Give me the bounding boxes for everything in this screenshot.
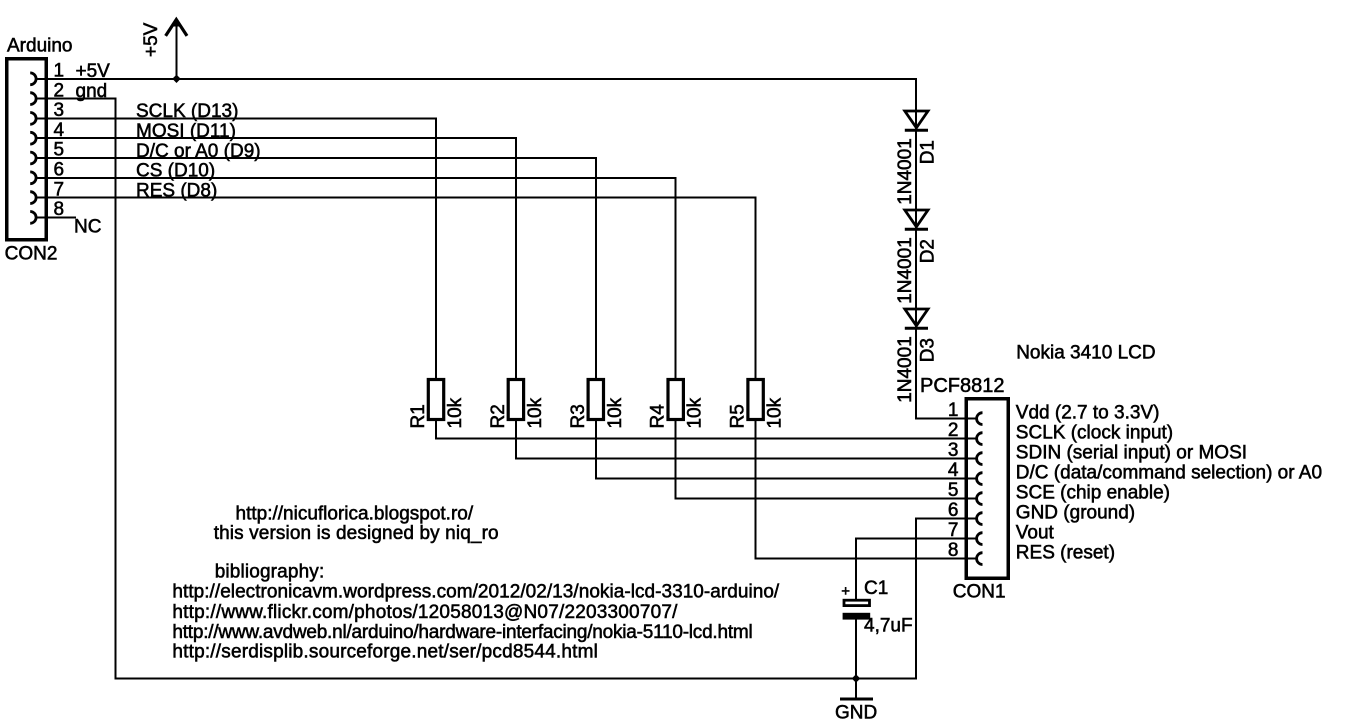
note text: http://www.flickr.com/photos/12058013@N0 — [172, 602, 678, 623]
svg-text:10k: 10k — [525, 397, 546, 428]
wire gnd net: CON2 pin2 down left side, bottom rail, up to CON1 pin6 — [36, 99, 977, 679]
label R4 (rotated) — [648, 404, 669, 429]
svg-text:5: 5 — [948, 480, 959, 501]
wire R4 bottom to CON1 pin 5 — [676, 420, 977, 499]
CON2 pin number 6 — [54, 160, 65, 181]
value 1N4001 of D2 (rotated) — [895, 237, 916, 304]
value 10k of R1 (rotated) — [445, 397, 466, 428]
svg-text:RES (D8): RES (D8) — [136, 180, 217, 201]
svg-text:CON2: CON2 — [5, 244, 58, 265]
svg-text:Arduino: Arduino — [7, 36, 73, 57]
svg-text:+5V: +5V — [141, 22, 162, 57]
label D1 (rotated) — [918, 140, 939, 164]
svg-text:http://nicuflorica.blogspot.ro: http://nicuflorica.blogspot.ro/ — [236, 503, 474, 524]
resistor R5 body — [748, 380, 763, 420]
svg-text:+: + — [841, 583, 850, 600]
svg-text:SCLK (clock input): SCLK (clock input) — [1016, 423, 1173, 444]
value 1N4001 of D1 (rotated) — [895, 138, 916, 205]
wire R2 bottom to CON1 pin 3 — [516, 420, 977, 459]
svg-text:+5V: +5V — [76, 61, 111, 82]
svg-text:1: 1 — [948, 400, 959, 421]
svg-text:6: 6 — [948, 500, 959, 521]
connector CON2 (Arduino header) — [7, 59, 47, 240]
CON2 pin 1 socket — [30, 73, 36, 85]
label PCF8812 — [920, 375, 1005, 397]
note text: http://www.avdweb.nl/arduino/hardware-in — [172, 622, 752, 643]
svg-text:10k: 10k — [605, 397, 626, 428]
svg-text:10k: 10k — [765, 397, 786, 428]
svg-text:Vout: Vout — [1016, 523, 1055, 544]
svg-text:this version is designed by ni: this version is designed by niq_ro — [214, 523, 499, 544]
wire C1 bottom to ground rail — [855, 620, 857, 679]
resistor R2 body — [508, 380, 523, 420]
svg-text:PCF8812: PCF8812 — [920, 375, 1005, 397]
diode D2 (1N4001) — [905, 210, 928, 229]
svg-text:bibliography:: bibliography: — [215, 562, 325, 583]
diode D3 (1N4001) — [905, 309, 928, 328]
svg-text:D2: D2 — [918, 239, 939, 263]
svg-text:R3: R3 — [568, 404, 589, 428]
value 10k of R4 (rotated) — [685, 397, 706, 428]
CON2 pin number 5 — [54, 140, 65, 161]
wire SCLK from CON2 pin 3 to R1 top — [36, 118, 436, 379]
label Arduino — [7, 36, 73, 57]
svg-text:C1: C1 — [864, 578, 888, 599]
CON1 pin 1 socket — [977, 413, 983, 425]
CON1 pin number 7 — [948, 520, 959, 541]
CON1 pin 7 socket — [977, 533, 983, 545]
wire R3 bottom to CON1 pin 4 — [596, 420, 977, 479]
CON1 pin number 5 — [948, 480, 959, 501]
svg-text:SCE (chip enable): SCE (chip enable) — [1016, 483, 1170, 504]
note text: this version is designed by niq_ro — [214, 523, 499, 544]
wire +5V net: CON2 pin1 to top rail to diode chain — [36, 79, 977, 419]
CON1 pin number 2 — [948, 420, 959, 441]
label MOSI (D11) — [136, 121, 236, 142]
connector CON1 (Nokia 3410 LCD PCF8812) — [966, 399, 1008, 579]
wire CS from CON2 pin 6 to R4 top — [36, 178, 676, 380]
CON2 pin 3 socket — [30, 113, 36, 125]
svg-text:GND (ground): GND (ground) — [1016, 503, 1135, 524]
svg-text:R5: R5 — [728, 404, 749, 428]
label D3 (rotated) — [918, 338, 939, 362]
svg-text:2: 2 — [948, 420, 959, 441]
svg-text:R2: R2 — [488, 404, 509, 428]
CON2 pin 8 socket — [30, 212, 36, 224]
svg-text:SCLK (D13): SCLK (D13) — [136, 101, 238, 122]
CON2 pin 2 socket — [30, 93, 36, 105]
label SCLK (clock input) — [1016, 423, 1173, 444]
label C1 — [864, 578, 888, 599]
svg-text:CON1: CON1 — [953, 582, 1006, 603]
CON1 pin 3 socket — [977, 453, 983, 465]
label +5V (rotated) — [141, 22, 162, 57]
CON1 pin 2 socket — [977, 433, 983, 445]
capacitor C1 polarized — [843, 600, 871, 619]
svg-text:http://www.flickr.com/photos/1: http://www.flickr.com/photos/12058013@N0… — [172, 602, 678, 623]
ground symbol GND — [840, 679, 873, 700]
CON2 pin number 8 — [54, 199, 65, 220]
svg-text:GND: GND — [835, 703, 877, 724]
svg-text:4: 4 — [948, 460, 959, 481]
label CS (D10) — [136, 161, 215, 182]
label R2 (rotated) — [488, 404, 509, 428]
junction at +5V arrow and rail — [172, 75, 180, 83]
note text: http://nicuflorica.blogspot.ro/ — [236, 503, 474, 524]
value 4,7uF — [864, 616, 913, 637]
CON1 pin 8 socket — [977, 553, 983, 565]
svg-text:RES (reset): RES (reset) — [1016, 543, 1115, 564]
resistor R3 body — [588, 380, 603, 420]
CON1 pin 6 socket — [977, 513, 983, 525]
wire D/C from CON2 pin 5 to R3 top — [36, 158, 596, 380]
svg-text:1N4001: 1N4001 — [895, 138, 916, 205]
label R1 (rotated) — [408, 404, 429, 428]
label RES (reset) — [1016, 543, 1115, 564]
CON2 pin 4 socket — [30, 132, 36, 144]
value 1N4001 of D3 (rotated) — [895, 336, 916, 403]
CON2 pin number 1 — [54, 61, 65, 82]
wire R5 bottom to CON1 pin 8 — [756, 420, 977, 559]
svg-text:3: 3 — [948, 440, 959, 461]
wire RES from CON2 pin 7 to R5 top — [36, 198, 756, 380]
svg-text:D/C (data/command selection) o: D/C (data/command selection) or A0 — [1016, 463, 1322, 484]
label SCLK (D13) — [136, 101, 238, 122]
label R3 (rotated) — [568, 404, 589, 428]
CON2 pin number 7 — [54, 179, 65, 200]
resistor R1 body — [428, 380, 443, 420]
label SCE (chip enable) — [1016, 483, 1170, 504]
wire R1 bottom to CON1 pin 2 — [436, 420, 977, 439]
label CON2 — [5, 244, 58, 265]
label Vout — [1016, 523, 1055, 544]
label D/C (data/command selection) or A0 — [1016, 463, 1322, 484]
svg-text:http://electronicavm.wordpress: http://electronicavm.wordpress.com/2012/… — [172, 582, 780, 603]
svg-text:Vdd (2.7 to 3.3V): Vdd (2.7 to 3.3V) — [1016, 403, 1160, 424]
svg-text:10k: 10k — [445, 397, 466, 428]
label NC — [74, 217, 101, 238]
note text: bibliography: — [215, 562, 325, 583]
junction at C1 / ground rail — [852, 674, 861, 683]
wire NC stub CON2 pin8 — [36, 216, 76, 218]
CON2 pin number 3 — [54, 100, 65, 121]
svg-text:4,7uF: 4,7uF — [864, 616, 913, 637]
CON1 pin 4 socket — [977, 473, 983, 485]
svg-text:SDIN (serial input) or MOSI: SDIN (serial input) or MOSI — [1016, 443, 1247, 464]
svg-text:1N4001: 1N4001 — [895, 237, 916, 304]
wire MOSI from CON2 pin 4 to R2 top — [36, 138, 516, 379]
label + polarity of C1 — [841, 583, 850, 600]
CON2 pin number 2 — [54, 80, 65, 101]
CON2 pin 6 socket — [30, 172, 36, 184]
label Nokia 3410 LCD — [1016, 343, 1155, 364]
svg-text:R1: R1 — [408, 404, 429, 428]
CON1 pin number 8 — [948, 540, 959, 561]
note text: http://serdisplib.sourceforge.net/ser/pc — [172, 642, 598, 663]
CON1 pin 5 socket — [977, 493, 983, 505]
label Vdd (2.7 to 3.3V) — [1016, 403, 1160, 424]
label RES (D8) — [136, 180, 217, 201]
diode D1 (1N4001) — [905, 111, 928, 130]
label +5V pin1 — [76, 61, 111, 82]
value 10k of R2 (rotated) — [525, 397, 546, 428]
svg-text:http://www.avdweb.nl/arduino/h: http://www.avdweb.nl/arduino/hardware-in… — [172, 622, 752, 643]
CON2 pin 5 socket — [30, 152, 36, 164]
power +5V arrow symbol — [166, 19, 187, 79]
note text: http://electronicavm.wordpress.com/2012/ — [172, 582, 780, 603]
wire Vout: CON1 pin7 to C1 top — [856, 539, 977, 601]
svg-text:D1: D1 — [918, 140, 939, 164]
CON2 pin number 4 — [54, 120, 65, 141]
svg-text:MOSI (D11): MOSI (D11) — [136, 121, 236, 142]
label D2 (rotated) — [918, 239, 939, 263]
value 10k of R5 (rotated) — [765, 397, 786, 428]
svg-text:1N4001: 1N4001 — [895, 336, 916, 403]
label CON1 — [953, 582, 1006, 603]
label SDIN (serial input) or MOSI — [1016, 443, 1247, 464]
CON1 pin number 4 — [948, 460, 959, 481]
svg-text:R4: R4 — [648, 404, 669, 429]
svg-text:D3: D3 — [918, 338, 939, 362]
svg-text:8: 8 — [948, 540, 959, 561]
CON2 pin 7 socket — [30, 192, 36, 204]
label GND (ground) — [1016, 503, 1135, 524]
CON1 pin number 1 — [948, 400, 959, 421]
value 10k of R3 (rotated) — [605, 397, 626, 428]
svg-text:D/C or A0 (D9): D/C or A0 (D9) — [136, 141, 261, 162]
svg-text:10k: 10k — [685, 397, 706, 428]
label GND — [835, 703, 877, 724]
svg-text:NC: NC — [74, 217, 101, 238]
svg-text:Nokia 3410 LCD: Nokia 3410 LCD — [1016, 343, 1155, 364]
label gnd pin2 — [76, 81, 108, 102]
CON1 pin number 6 — [948, 500, 959, 521]
label R5 (rotated) — [728, 404, 749, 428]
svg-text:CS (D10): CS (D10) — [136, 161, 215, 182]
resistor R4 body — [668, 380, 683, 420]
label D/C or A0 (D9) — [136, 141, 261, 162]
CON1 pin number 3 — [948, 440, 959, 461]
svg-text:gnd: gnd — [76, 81, 108, 102]
svg-text:http://serdisplib.sourceforge.: http://serdisplib.sourceforge.net/ser/pc… — [172, 642, 598, 663]
